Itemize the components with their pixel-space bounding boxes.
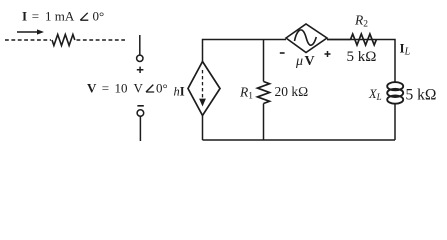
minus sign bbox=[137, 105, 143, 107]
wire: top left segment bbox=[203, 40, 287, 62]
svg-text:=: = bbox=[102, 81, 109, 96]
inductor XL bbox=[387, 82, 403, 104]
top open terminal bbox=[137, 55, 143, 61]
svg-text:10: 10 bbox=[115, 81, 128, 96]
wire: R1 top branch bbox=[263, 40, 265, 82]
minus sign (uV left) bbox=[280, 52, 285, 54]
svg-text:5 kΩ: 5 kΩ bbox=[406, 86, 437, 103]
svg-text:V: V bbox=[134, 81, 144, 96]
resistor (legend, unlabeled) bbox=[52, 35, 75, 46]
wire: top right segment bbox=[327, 40, 395, 83]
wire: R2 leads bbox=[327, 39, 351, 41]
wire: bottom bbox=[203, 139, 396, 141]
top open terminal lead bbox=[139, 35, 141, 55]
wire: left branch bottom bbox=[202, 116, 204, 141]
dependent current source hI bbox=[188, 62, 220, 116]
svg-text:=: = bbox=[32, 9, 39, 24]
plus sign (uV right) bbox=[325, 51, 331, 57]
bottom open terminal bbox=[137, 110, 144, 117]
svg-text:V: V bbox=[87, 81, 97, 96]
plus sign bbox=[137, 67, 144, 73]
svg-text:0°: 0° bbox=[93, 9, 105, 24]
dashed wire right of legend resistor bbox=[77, 39, 126, 41]
svg-text:20 kΩ: 20 kΩ bbox=[275, 84, 309, 99]
svg-text:5 kΩ: 5 kΩ bbox=[347, 49, 377, 65]
bottom open terminal lead bbox=[139, 116, 141, 141]
svg-text:μV: μV bbox=[295, 54, 315, 69]
svg-text:hI: hI bbox=[174, 85, 185, 99]
label I = 1 mA angle 0deg bbox=[22, 9, 104, 24]
resistor R1 bbox=[258, 82, 270, 104]
svg-text:0°: 0° bbox=[156, 81, 168, 96]
current direction arrow bbox=[17, 29, 44, 34]
svg-text:1 mA: 1 mA bbox=[45, 9, 75, 24]
resistor R2 bbox=[351, 34, 377, 45]
label V = 10 V angle 0deg bbox=[87, 81, 168, 96]
dashed wire left of legend resistor bbox=[5, 39, 51, 41]
wire: right branch bottom bbox=[394, 104, 396, 141]
wire: R1 bottom branch bbox=[263, 104, 265, 141]
dependent voltage source uV bbox=[286, 24, 327, 53]
svg-text:I: I bbox=[22, 9, 27, 24]
